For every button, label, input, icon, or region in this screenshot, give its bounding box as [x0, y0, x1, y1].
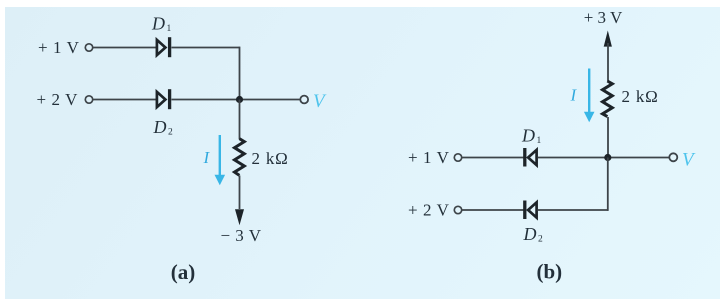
wire [607, 43, 609, 81]
wire [93, 47, 157, 49]
terminal +1 V (b) [454, 154, 461, 161]
terminal +2 V (a) [85, 96, 92, 103]
svg-text:+ 1 V: + 1 V [38, 38, 80, 57]
svg-text:+ 1 V: + 1 V [408, 148, 450, 167]
wire [462, 157, 524, 159]
wire [93, 99, 157, 101]
terminal V output (a) [300, 96, 308, 104]
supply arrow +3 V (b) [604, 31, 612, 47]
wire [239, 176, 241, 210]
diode D1 [157, 37, 170, 57]
current arrow I (a) [215, 135, 226, 185]
junction node (a) [236, 96, 243, 103]
svg-text:I: I [570, 86, 578, 105]
terminal V output (b) [669, 153, 677, 161]
wire [239, 47, 241, 100]
junction node (b) [604, 154, 611, 161]
svg-text:2 kΩ: 2 kΩ [622, 87, 659, 106]
diode D2 (b) [525, 201, 537, 220]
svg-text:+ 3 V: + 3 V [584, 8, 623, 27]
svg-text:+ 2 V: + 2 V [36, 90, 78, 109]
wire [239, 100, 241, 140]
current arrow I (b) [584, 69, 595, 123]
svg-text:(a): (a) [171, 260, 196, 284]
terminal +2 V (b) [454, 206, 461, 213]
svg-text:V: V [313, 91, 327, 112]
supply arrow -3 V (a) [235, 209, 244, 225]
svg-text:I: I [203, 148, 211, 167]
resistor 2 kOhm (a) [235, 139, 245, 176]
svg-text:D2: D2 [523, 224, 544, 245]
svg-text:D1: D1 [151, 14, 172, 35]
wire [172, 47, 240, 49]
wire [607, 158, 609, 211]
wire [538, 157, 670, 159]
diode D1 (b) [525, 148, 537, 167]
resistor 2 kOhm (b) [603, 81, 613, 117]
wire [462, 209, 524, 211]
wire [538, 209, 608, 211]
svg-text:D2: D2 [153, 117, 174, 138]
wire [607, 117, 609, 158]
svg-text:2 kΩ: 2 kΩ [252, 149, 289, 168]
diode D2 [157, 89, 170, 109]
svg-text:+ 2 V: + 2 V [408, 200, 450, 219]
svg-text:(b): (b) [536, 260, 562, 284]
svg-text:− 3 V: − 3 V [220, 226, 261, 245]
svg-text:V: V [682, 150, 696, 171]
svg-text:D1: D1 [521, 126, 542, 147]
wire [172, 99, 301, 101]
terminal +1 V (a) [85, 44, 92, 51]
